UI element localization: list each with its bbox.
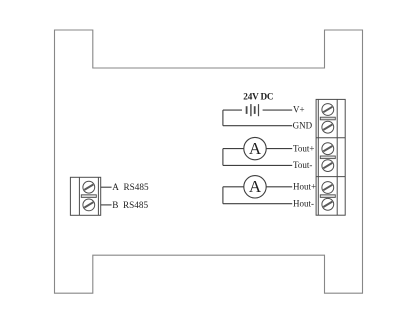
- jumper bar TB1 group1: [320, 117, 335, 120]
- wire A2 left segment: [223, 186, 244, 188]
- ammeter A1: [244, 137, 266, 159]
- svg-text:A: A: [249, 139, 262, 158]
- svg-text:V+: V+: [293, 104, 305, 114]
- module outline: [55, 30, 363, 293]
- screw terminal B: [83, 199, 95, 211]
- screw terminal Tout-: [322, 160, 334, 172]
- wire battery to V+: [263, 109, 293, 111]
- svg-text:GND: GND: [293, 121, 313, 131]
- screw terminal Hout-: [322, 198, 334, 210]
- jumper bar TB1 group3: [320, 195, 335, 198]
- screw terminal GND: [322, 121, 334, 133]
- svg-text:24V DC: 24V DC: [243, 92, 273, 102]
- wire terminal A lead: [101, 186, 112, 188]
- svg-text:Tout+: Tout+: [293, 143, 314, 153]
- wire battery left top segment: [223, 109, 242, 111]
- wire battery left vertical: [222, 110, 224, 126]
- ammeter A2: [244, 176, 266, 198]
- wire A1 left segment: [223, 148, 244, 150]
- terminal block TB2 (left, RS485): [70, 177, 100, 215]
- wire GND: [223, 125, 292, 127]
- terminal block TB1 (right, 6 terminals): [316, 99, 345, 215]
- wire A2 left vertical: [222, 187, 224, 204]
- svg-text:B RS485: B RS485: [112, 200, 148, 210]
- svg-text:Hout-: Hout-: [293, 199, 314, 209]
- jumper bar TB1 group2: [320, 156, 335, 159]
- wire A1 left vertical: [222, 149, 224, 166]
- screw terminal Hout+: [322, 182, 334, 194]
- wire Tout-: [223, 164, 292, 166]
- wire A1 to Tout+: [266, 148, 292, 150]
- wire terminal B lead: [101, 204, 112, 206]
- svg-text:Hout+: Hout+: [293, 182, 316, 192]
- wire A2 to Hout+: [266, 186, 292, 188]
- screw terminal Tout+: [322, 143, 334, 155]
- svg-text:Tout-: Tout-: [293, 160, 312, 170]
- battery B1: [247, 104, 259, 116]
- screw terminal V+: [322, 104, 334, 116]
- jumper bar TB2: [81, 195, 96, 198]
- wire Hout-: [223, 203, 292, 205]
- svg-text:A RS485: A RS485: [112, 182, 149, 192]
- screw terminal A: [83, 181, 95, 193]
- svg-text:A: A: [249, 177, 262, 196]
